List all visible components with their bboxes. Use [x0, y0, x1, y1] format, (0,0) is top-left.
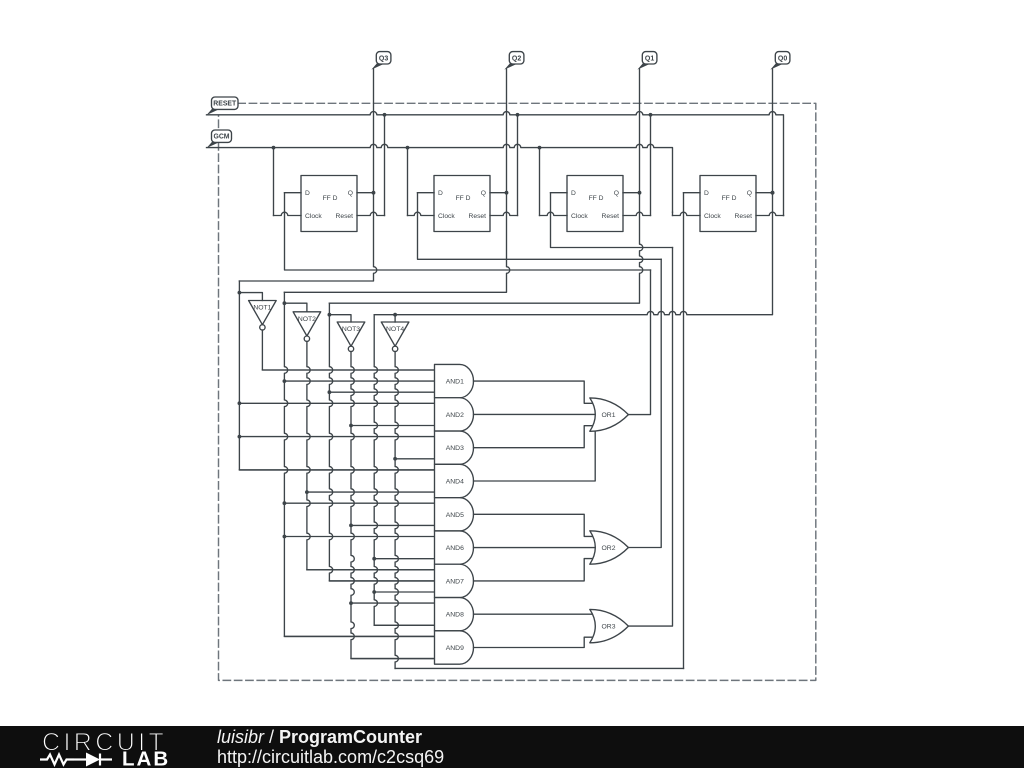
- wire Reset pin FF3: [623, 212, 651, 215]
- wire /Q2 to AND7 in1: [307, 569, 435, 571]
- wire Q pin FF1: [357, 192, 374, 194]
- wire AND1 out to OR1: [474, 381, 593, 403]
- wire reset drop FF3: [650, 115, 652, 216]
- inverter NOT4: [381, 322, 409, 352]
- wire D pin FF3: [551, 192, 568, 194]
- junction Q3 to NOT1: [238, 291, 242, 295]
- wire AND4 out to OR1: [474, 429, 596, 481]
- net flag Q0: [770, 52, 789, 70]
- junction Q2 to NOT2: [283, 301, 287, 305]
- wire Q2 to AND9 in1: [284, 635, 434, 637]
- wire Q1 column: [329, 303, 440, 581]
- wire RESET bus: [207, 112, 784, 216]
- wire Q2 to AND5 in1: [284, 502, 434, 504]
- wire OR1 output: [628, 270, 650, 415]
- wire D pin FF1: [285, 192, 302, 194]
- junction GCM bus: [406, 146, 410, 150]
- svg-text:AND7: AND7: [446, 578, 464, 585]
- and-gate AND6: [435, 531, 474, 564]
- wire Reset pin FF4: [756, 212, 784, 215]
- or-gate OR2: [590, 531, 629, 564]
- or-gate OR1: [590, 398, 629, 431]
- junction Q0 to NOT4: [393, 313, 397, 317]
- svg-text:NOT1: NOT1: [253, 305, 271, 312]
- svg-text:OR2: OR2: [602, 545, 616, 552]
- svg-text:Q: Q: [348, 190, 353, 197]
- wire Q3 to AND2 in1: [239, 402, 434, 404]
- wire OR2 output: [628, 259, 661, 547]
- svg-text:D: D: [704, 190, 709, 197]
- wire NOT3 output column: [351, 352, 435, 659]
- junction GCM bus: [272, 146, 276, 150]
- svg-text:Clock: Clock: [571, 213, 588, 220]
- wire AND2 out to OR1: [474, 413, 597, 415]
- junction NOT3 to AND5: [349, 524, 353, 528]
- wire Q3 to AND4 in1: [239, 469, 434, 471]
- junction Q1 to AND1: [328, 390, 332, 394]
- wire reset drop FF2: [517, 115, 519, 216]
- net flag RESET: [207, 97, 238, 115]
- wire NOT3 input: [329, 315, 351, 322]
- flip-flop FF2 (FF D): [434, 176, 490, 232]
- junction RESET bus: [516, 113, 520, 117]
- wire Q2 to AND1 in2: [284, 380, 440, 382]
- wire D1 net FF1 to OR1: [285, 193, 651, 270]
- svg-text:Reset: Reset: [469, 213, 487, 220]
- wire OR3 output: [628, 248, 672, 627]
- wire D pin FF2: [418, 192, 435, 194]
- dashed annotation border: [219, 103, 816, 680]
- svg-text:LAB: LAB: [122, 748, 170, 768]
- wire Q3 column: [239, 281, 434, 470]
- svg-text:FF D: FF D: [456, 195, 471, 202]
- wire /Q0 to AND3 in3: [395, 458, 434, 460]
- svg-text:D: D: [438, 190, 443, 197]
- or-gate OR3: [590, 609, 629, 642]
- and-gate AND2: [435, 398, 474, 431]
- wire clock drop FF1: [273, 148, 275, 216]
- wire /Q3 to AND1 in1: [262, 369, 434, 371]
- svg-text:AND2: AND2: [446, 412, 464, 419]
- wire Q0 to AND7 in3: [374, 591, 434, 593]
- svg-text:Reset: Reset: [602, 213, 620, 220]
- svg-text:Q1: Q1: [645, 55, 654, 62]
- svg-text:NOT3: NOT3: [342, 326, 360, 333]
- wire Reset pin FF1: [357, 212, 385, 215]
- wire Clock pin FF2: [408, 212, 435, 215]
- svg-text:AND9: AND9: [446, 645, 464, 652]
- svg-text:OR3: OR3: [602, 624, 616, 631]
- net flag Q3: [371, 52, 391, 70]
- svg-text:Clock: Clock: [704, 213, 721, 220]
- junction NOT4 to AND3: [393, 457, 397, 461]
- wire Clock pin FF1: [274, 212, 302, 215]
- wire D pin FF4: [684, 192, 701, 194]
- svg-text:RESET: RESET: [213, 101, 237, 108]
- wire clock drop FF4: [672, 212, 674, 215]
- junction Q1 to NOT3: [328, 313, 332, 317]
- wire NOT1 input: [239, 293, 262, 301]
- junction GCM bus: [538, 146, 542, 150]
- svg-text:Q: Q: [481, 190, 486, 197]
- wire Clock pin FF4: [673, 212, 701, 215]
- svg-text:AND6: AND6: [446, 545, 464, 552]
- flip-flop FF4 (FF D): [700, 176, 756, 232]
- net flag Q1: [637, 52, 656, 70]
- wire NOT2 input: [284, 303, 307, 312]
- svg-text:AND5: AND5: [446, 512, 464, 519]
- svg-text:OR1: OR1: [602, 412, 616, 419]
- junction Q0 to AND7: [372, 590, 376, 594]
- wire Reset pin FF2: [490, 212, 518, 215]
- svg-text:Q3: Q3: [379, 55, 388, 62]
- CircuitLab logo: [38, 727, 198, 768]
- wire Q0 flag drop and run: [374, 69, 772, 315]
- svg-text:FF D: FF D: [722, 195, 737, 202]
- svg-text:Q2: Q2: [512, 55, 521, 62]
- junction Q0 to AND6: [372, 557, 376, 561]
- and-gate AND1: [435, 364, 474, 397]
- wire reset drop FF1: [384, 115, 386, 216]
- inverter NOT3: [337, 322, 365, 352]
- svg-text:AND1: AND1: [446, 379, 464, 386]
- svg-text:D: D: [305, 190, 310, 197]
- junction Q2 tap: [505, 191, 509, 195]
- wire NOT4 output column: [395, 352, 398, 669]
- wire Q3 to AND3 in1: [239, 436, 434, 438]
- svg-text:Reset: Reset: [336, 213, 354, 220]
- wire AND3 out to OR1: [474, 426, 593, 448]
- wire D4 riser FF4: [683, 193, 685, 669]
- wire AND7 out to OR2: [474, 559, 593, 581]
- wire AND9 out to OR3: [474, 637, 594, 647]
- flip-flop FF3 (FF D): [567, 176, 623, 232]
- junction NOT2 to AND4: [305, 490, 309, 494]
- junction Q0 tap: [771, 191, 775, 195]
- wire Q0 to AND8 in3: [374, 624, 434, 626]
- junction Q3 tap: [372, 191, 376, 195]
- and-gate AND3: [435, 431, 474, 464]
- wire Q1 to AND7 in2: [329, 580, 440, 582]
- wire Q2 to AND6 in1: [284, 536, 434, 538]
- wire NOT1 output to AND1: [262, 330, 434, 370]
- svg-text:NOT2: NOT2: [298, 316, 316, 323]
- svg-text:Q: Q: [747, 190, 752, 197]
- wire /Q1 to AND5 in3: [351, 524, 435, 526]
- inverter NOT2: [293, 312, 321, 342]
- wire /Q2 to AND4 in3: [307, 491, 435, 493]
- svg-text:Clock: Clock: [305, 213, 322, 220]
- and-gate AND8: [435, 598, 474, 631]
- junction RESET bus: [383, 113, 387, 117]
- svg-text:GCM: GCM: [213, 134, 229, 141]
- junction Q2 to AND6: [283, 535, 287, 539]
- wire Q2 flag drop and run: [284, 69, 509, 292]
- svg-text:Clock: Clock: [438, 213, 455, 220]
- wire Q2 column: [284, 292, 434, 636]
- svg-text:Q: Q: [614, 190, 619, 197]
- and-gate AND9: [435, 631, 474, 664]
- junction Q1 tap: [638, 191, 642, 195]
- svg-text:NOT4: NOT4: [386, 326, 404, 333]
- junction Q2 to AND1: [283, 379, 287, 383]
- net flag Q2: [504, 52, 523, 70]
- wire AND8 out to OR3: [474, 613, 595, 615]
- junction NOT3 to AND8: [349, 601, 353, 605]
- svg-text:FF D: FF D: [589, 195, 604, 202]
- wire /Q1 to AND9 in3: [351, 658, 435, 660]
- wire /Q1 to AND8 in1: [351, 602, 435, 604]
- junction Q3 to AND2: [238, 401, 242, 405]
- wire AND5 out to OR2: [474, 514, 593, 536]
- wire clock drop FF2: [407, 148, 409, 216]
- junction Q0 at FF4 Q: [771, 191, 775, 195]
- wire Q0 column: [374, 315, 434, 626]
- wire Q1 to AND1 in3: [329, 391, 434, 393]
- wire NOT4 input: [394, 315, 396, 322]
- wire Q3 flag drop and run: [239, 69, 376, 281]
- wire reset drop FF4: [783, 215, 785, 217]
- svg-text:Reset: Reset: [735, 213, 753, 220]
- svg-text:D: D: [571, 190, 576, 197]
- wire Q0 to AND6 in3: [374, 558, 434, 560]
- wire D3 net FF3 to OR3: [551, 193, 673, 248]
- and-gate AND7: [435, 564, 474, 597]
- and-gate AND5: [435, 498, 474, 531]
- wire /Q1 to AND2 in3: [351, 425, 435, 427]
- wire clock drop FF3: [539, 148, 541, 216]
- wire GCM clock bus: [207, 144, 673, 212]
- net flag GCM: [207, 130, 232, 148]
- wire Clock pin FF3: [540, 212, 568, 215]
- wire Q1 flag drop and run: [329, 69, 642, 303]
- junction Q3 to AND3: [238, 435, 242, 439]
- wire D2 net FF2 to OR2: [418, 193, 662, 260]
- footer bar: [0, 726, 1024, 768]
- wire Q pin FF3: [623, 192, 640, 194]
- svg-text:FF D: FF D: [323, 195, 338, 202]
- wire Q pin FF2: [490, 192, 507, 194]
- wire D4 bottom run to NOT4: [395, 667, 683, 669]
- wire Q pin FF4: [756, 192, 773, 194]
- and-gate AND4: [435, 464, 474, 497]
- inverter NOT1: [249, 301, 277, 331]
- flip-flop FF1 (FF D): [301, 176, 357, 232]
- svg-text:AND8: AND8: [446, 612, 464, 619]
- svg-text:AND3: AND3: [446, 445, 464, 452]
- junction RESET bus: [649, 113, 653, 117]
- svg-text:Q0: Q0: [778, 55, 787, 62]
- junction Q2 to AND5: [283, 501, 287, 505]
- wire NOT2 output column: [307, 341, 435, 569]
- junction NOT3 to AND2: [349, 424, 353, 428]
- svg-text:AND4: AND4: [446, 479, 464, 486]
- wire AND6 out to OR2: [474, 547, 597, 549]
